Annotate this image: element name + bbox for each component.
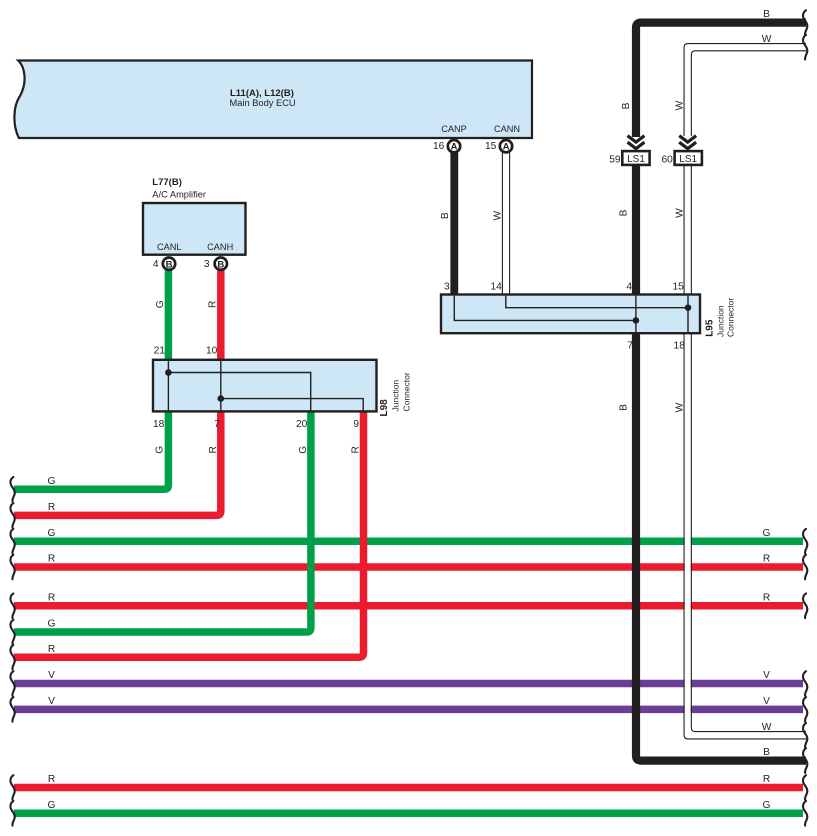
splice arrow into LS1 no.60 (double chevron) [679, 136, 696, 149]
pin circle B (3) on A/C amplifier [215, 258, 227, 270]
wire break symbol (left edge, y=541.2) [10, 529, 14, 554]
svg-text:3: 3 [204, 259, 210, 270]
wire break symbol (right edge, y=22.6) [803, 10, 807, 35]
wire: black B main vertical, top elbow from right edge down to LS1 arrow [636, 23, 806, 137]
svg-text:7: 7 [627, 340, 633, 351]
wire break symbols (left edge) [10, 477, 14, 826]
svg-text:V: V [763, 670, 770, 681]
wire break symbol (left edge, y=787.5) [10, 775, 14, 800]
wire: green horizontal row G (full width) [14, 537, 803, 545]
svg-text:LS1: LS1 [627, 154, 645, 165]
svg-text:A: A [503, 142, 510, 153]
svg-text:3: 3 [444, 282, 450, 293]
wire break symbols (right edge) [803, 10, 807, 825]
wire break symbol (left edge, y=489.3) [10, 477, 14, 502]
junction dot pin10 bus [218, 395, 225, 402]
wire: red CANH from A/C pin 3 to L98 pin 10 [217, 271, 225, 360]
svg-text:R: R [48, 502, 55, 513]
svg-text:10: 10 [206, 346, 218, 357]
svg-text:G: G [48, 528, 56, 539]
svg-text:18: 18 [674, 340, 686, 351]
L95 internal wire: pin 3 to pin 4/7 bus [454, 296, 636, 321]
wire: red from L98 pin 9 turning left to edge [14, 411, 364, 657]
splice box LS1 (60) [675, 151, 702, 165]
pin circle B (4) on A/C amplifier [163, 258, 175, 270]
svg-text:Junction: Junction [716, 305, 726, 337]
svg-text:B: B [440, 212, 451, 219]
svg-text:B: B [217, 260, 224, 271]
wire: red from L98 pin 7 turning left to edge [14, 411, 221, 515]
wire: white W from ECU CANN pin 15 to L95 pin 14 (double line) [501, 153, 503, 295]
svg-text:B: B [618, 209, 629, 216]
L98 internal wire: bus to pin 9 [221, 399, 363, 411]
wire break symbol (left edge, y=632) [10, 620, 14, 645]
L98 internal wire: pin 10 to pin 7 [220, 361, 222, 410]
svg-text:R: R [48, 554, 55, 565]
svg-text:A/C Amplifier: A/C Amplifier [152, 190, 206, 200]
svg-text:Main Body ECU: Main Body ECU [230, 98, 296, 108]
svg-text:L98: L98 [379, 399, 390, 417]
wire: red horizontal row R (full width) [14, 563, 803, 571]
svg-text:B: B [618, 404, 629, 411]
svg-text:R: R [763, 554, 770, 565]
L95 internal wire: pin 4 to pin 7 [635, 296, 637, 333]
svg-text:CANN: CANN [494, 124, 520, 134]
wire: white W main vertical, L95 pin 18 down, bottom elbow right to edge [688, 333, 806, 735]
svg-text:R: R [48, 644, 55, 655]
svg-text:R: R [763, 774, 770, 785]
svg-text:V: V [48, 670, 55, 681]
wire break symbol (left edge, y=605.8) [10, 594, 14, 619]
svg-text:V: V [763, 696, 770, 707]
svg-text:G: G [48, 476, 56, 487]
svg-text:W: W [762, 34, 772, 45]
svg-text:L95: L95 [705, 319, 716, 337]
wire break symbol (left edge, y=515.4) [10, 503, 14, 528]
svg-text:7: 7 [214, 419, 220, 430]
junction dot on W bus [685, 304, 692, 311]
wire: white W main vertical, top elbow from right edge down to LS1 arrow [688, 47, 806, 136]
wire break symbol (right edge, y=760.6) [803, 748, 807, 773]
junction dot pin21 bus [165, 369, 172, 376]
svg-text:LS1: LS1 [679, 154, 697, 165]
L98 internal wire: bus to pin 20 [168, 373, 310, 411]
wire break symbol (left edge, y=813.3) [10, 801, 14, 826]
svg-text:R: R [48, 592, 55, 603]
wire: black B main vertical, LS1 to L95 pin 4 [632, 165, 640, 295]
svg-text:CANP: CANP [441, 124, 467, 134]
wire: red horizontal row R2 (full width) [14, 602, 803, 610]
svg-text:B: B [763, 9, 770, 20]
svg-text:R: R [208, 301, 219, 308]
junction connector L95 box [441, 295, 700, 334]
svg-text:G: G [154, 446, 165, 454]
svg-text:20: 20 [296, 419, 308, 430]
svg-text:CANL: CANL [157, 242, 182, 252]
svg-text:15: 15 [672, 282, 684, 293]
svg-text:14: 14 [490, 282, 502, 293]
svg-text:21: 21 [154, 346, 166, 357]
wire: red horizontal row R3 (full width, bottom) [14, 784, 803, 792]
wire: green from L98 pin 18 turning left to edge [14, 411, 168, 489]
svg-text:G: G [298, 446, 309, 454]
splice box LS1 (59) [622, 151, 649, 165]
wire break symbol (right edge, y=813.3) [803, 801, 807, 826]
splice arrow into LS1 no.59 (double chevron) [628, 136, 645, 149]
svg-text:60: 60 [661, 154, 673, 165]
svg-text:W: W [675, 402, 686, 412]
pin circle A (15) on ECU [500, 140, 512, 152]
svg-text:G: G [48, 619, 56, 630]
wire break symbol (right edge, y=605.8) [803, 594, 807, 619]
svg-text:R: R [763, 592, 770, 603]
svg-text:G: G [48, 800, 56, 811]
wire break symbol (right edge, y=709.4) [803, 697, 807, 722]
svg-text:R: R [48, 774, 55, 785]
svg-text:Junction: Junction [391, 380, 401, 412]
svg-text:W: W [675, 208, 686, 218]
wire: black B from ECU CANP pin 16 to L95 pin 3 [450, 153, 458, 295]
svg-text:W: W [492, 211, 503, 221]
wire break symbol (left edge, y=567) [10, 555, 14, 580]
connector box: Main Body ECU L11(A)/L12(B), torn left edge [14, 61, 532, 139]
wire: green CANL from A/C pin 4 to L98 pin 21 [165, 271, 173, 360]
wire: violet horizontal row V2 (full width) [14, 706, 803, 714]
svg-text:B: B [621, 102, 632, 109]
svg-text:CANH: CANH [207, 242, 233, 252]
svg-text:V: V [48, 696, 55, 707]
L98 internal wire: pin 21 to pin 18 [167, 361, 169, 410]
svg-text:4: 4 [626, 282, 632, 293]
svg-text:Connector: Connector [726, 298, 736, 337]
svg-text:9: 9 [353, 419, 359, 430]
wire break symbol (right edge, y=735.25) [803, 723, 807, 748]
wire break symbol (right edge, y=787.5) [803, 775, 807, 800]
svg-text:18: 18 [153, 419, 165, 430]
svg-text:Connector: Connector [402, 372, 412, 411]
svg-text:G: G [763, 528, 771, 539]
svg-text:R: R [350, 446, 361, 453]
wire break symbol (left edge, y=709.4) [10, 697, 14, 722]
connector box: A/C Amplifier L77(B) [143, 203, 246, 255]
pin circle A (16) on ECU [448, 140, 460, 152]
svg-text:B: B [166, 260, 173, 271]
svg-text:16: 16 [433, 141, 445, 152]
junction dot on B bus [633, 317, 640, 324]
L95 internal wire: pin 15 to pin 18 [687, 296, 689, 333]
wire break symbol (right edge, y=567) [803, 555, 807, 580]
svg-text:W: W [762, 722, 772, 733]
svg-text:G: G [155, 300, 166, 308]
junction connector L98 box [153, 360, 377, 412]
wire break symbol (right edge, y=541.2) [803, 529, 807, 554]
svg-text:L77(B): L77(B) [152, 177, 182, 188]
svg-text:4: 4 [153, 259, 159, 270]
wire break symbol (left edge, y=683.5) [10, 671, 14, 696]
svg-text:59: 59 [609, 154, 621, 165]
wire: black B main vertical, L95 pin 7 down, bottom elbow right to edge [636, 333, 806, 760]
svg-text:R: R [208, 446, 219, 453]
L95 internal wire: pin 14 to pin 15/18 bus [506, 296, 688, 308]
wire: green horizontal row G3 (full width, bottom) [14, 810, 803, 818]
wire break symbol (right edge, y=683.5) [803, 671, 807, 696]
wire: white W main vertical, LS1 to L95 pin 15 [683, 165, 685, 295]
svg-text:B: B [763, 747, 770, 758]
wire break symbol (right edge, y=47.2) [803, 35, 807, 60]
svg-text:G: G [763, 800, 771, 811]
wire: violet horizontal row V1 (full width) [14, 680, 803, 688]
svg-text:A: A [451, 142, 458, 153]
wire break symbol (left edge, y=657.2) [10, 645, 14, 670]
svg-text:15: 15 [485, 141, 497, 152]
wire: green from L98 pin 20 turning left to edge [14, 411, 311, 632]
svg-text:W: W [675, 100, 686, 110]
